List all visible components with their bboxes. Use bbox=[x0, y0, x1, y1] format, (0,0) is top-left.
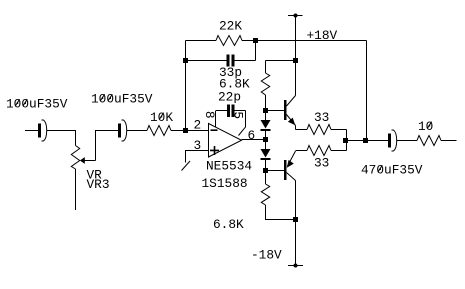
svg-text:22p: 22p bbox=[218, 90, 241, 105]
svg-text:-18V: -18V bbox=[251, 248, 282, 263]
wire 22K to +18V corner bbox=[242, 40, 367, 42]
label NE5534 bbox=[206, 159, 252, 174]
node bootstrap junction bbox=[363, 138, 368, 143]
terminal +18V tick bbox=[288, 14, 303, 18]
svg-text:10: 10 bbox=[418, 119, 433, 134]
label VR3 bbox=[87, 177, 110, 192]
wire wiper up to C2 bbox=[96, 131, 119, 161]
transistor Q2 PNP lower bbox=[284, 151, 307, 181]
pin 6 label bbox=[248, 128, 256, 143]
pin 2 label bbox=[194, 118, 202, 133]
label 10 bbox=[418, 119, 433, 134]
label 1S1588 bbox=[202, 176, 248, 191]
wire 33p left bbox=[186, 60, 227, 62]
diode D1 1S1588 bbox=[261, 120, 271, 131]
svg-text:33: 33 bbox=[314, 110, 329, 125]
wire Q1 emitter to 33 bbox=[296, 129, 308, 131]
label 22p bbox=[218, 90, 241, 105]
label 33 lower bbox=[314, 156, 329, 171]
wire output end bbox=[441, 140, 457, 142]
wire Q1 base bbox=[266, 110, 285, 112]
node inverting input junction bbox=[183, 128, 188, 133]
svg-text:100uF35V: 100uF35V bbox=[6, 97, 68, 112]
label 33 upper bbox=[314, 110, 329, 125]
potentiometer VR3 body bbox=[71, 146, 79, 170]
ground tick pin 3 bbox=[182, 161, 191, 171]
svg-text:1S1588: 1S1588 bbox=[202, 176, 248, 191]
svg-text:33: 33 bbox=[314, 156, 329, 171]
label 33p bbox=[219, 65, 242, 80]
svg-text:8: 8 bbox=[202, 111, 217, 119]
wire 6.8K to diode D1 bbox=[265, 95, 267, 120]
svg-text:100uF35V: 100uF35V bbox=[91, 92, 153, 107]
terminal -18V tick bbox=[288, 264, 303, 268]
wire top to 22K bbox=[186, 40, 217, 42]
node op-amp output junction bbox=[263, 137, 268, 142]
pin 8 label rotated bbox=[202, 111, 217, 119]
svg-text:10K: 10K bbox=[150, 110, 173, 125]
svg-text:6: 6 bbox=[248, 128, 256, 143]
svg-text:2: 2 bbox=[194, 118, 202, 133]
wire 10K to op-amp pin 2 bbox=[171, 130, 209, 132]
label +18V bbox=[307, 28, 338, 43]
label 6.8K lower bbox=[213, 217, 244, 232]
wire 6.8K top feed from +18V bbox=[266, 61, 296, 74]
wire pin 3 to ground tick bbox=[186, 151, 209, 163]
resistor 33 lower emitter bbox=[307, 146, 331, 156]
label 6.8K upper bbox=[219, 77, 250, 92]
wire Q2 collector to -18V bbox=[295, 181, 297, 266]
node feedback top junction bbox=[253, 38, 258, 43]
node Q2 base junction bbox=[263, 168, 268, 173]
resistor 33 upper emitter bbox=[307, 125, 331, 135]
wire feedback left vertical bbox=[185, 41, 187, 131]
svg-text:470uF35V: 470uF35V bbox=[361, 163, 423, 178]
label -18V bbox=[251, 248, 282, 263]
wire D2 to Q2 base node bbox=[265, 160, 267, 184]
potentiometer VR3 bottom lead bbox=[75, 169, 77, 210]
wire D1 to node bbox=[265, 131, 267, 149]
wire +18V rail vertical bbox=[295, 16, 297, 96]
node output junction bbox=[343, 138, 348, 143]
svg-text:6.8K: 6.8K bbox=[219, 77, 250, 92]
wire 33 upper to output node bbox=[331, 130, 347, 151]
wire C1 to VR3 top bbox=[47, 131, 76, 146]
svg-text:VR3: VR3 bbox=[87, 177, 110, 192]
diode D2 1S1588 bbox=[261, 149, 271, 160]
label 470uF35V bbox=[361, 163, 423, 178]
svg-text:5: 5 bbox=[231, 111, 246, 119]
resistor 10K bbox=[147, 126, 171, 136]
wire 6.8K lower to -18V rail bbox=[266, 205, 296, 220]
potentiometer VR3 wiper arrow bbox=[80, 157, 96, 164]
label 10K bbox=[150, 110, 173, 125]
label C1 100uF35V bbox=[6, 97, 68, 112]
resistor 6.8K lower bias bbox=[261, 184, 269, 205]
wire pin 6 output bbox=[242, 139, 266, 141]
label 22K bbox=[219, 19, 242, 34]
op-amp U1 NE5534 bbox=[209, 124, 242, 158]
transistor Q1 NPN upper bbox=[284, 96, 296, 130]
pin 3 label bbox=[194, 138, 202, 153]
svg-text:22K: 22K bbox=[219, 19, 242, 34]
node Q1 base junction bbox=[263, 108, 268, 113]
resistor 6.8K upper bias bbox=[261, 73, 269, 95]
wire Q2 base bbox=[266, 170, 285, 172]
capacitor 33p feedback bbox=[227, 55, 235, 67]
node -18V rail junction bbox=[293, 217, 298, 222]
wire input bbox=[25, 130, 38, 132]
wire 33 lower to output node bbox=[331, 150, 347, 152]
label C2 100uF35V bbox=[91, 92, 153, 107]
capacitor C2 100uF35V second coupling bbox=[118, 120, 127, 141]
wire output node to C3 bbox=[347, 140, 389, 142]
node +18V bias junction bbox=[293, 58, 298, 63]
label VR bbox=[87, 168, 103, 183]
wire pin 5 lead bbox=[239, 111, 246, 136]
wire junction down to 33p bbox=[255, 41, 257, 61]
node 33p left junction bbox=[183, 58, 188, 63]
pin 5 label rotated bbox=[231, 111, 246, 119]
capacitor C1 100uF35V input coupling bbox=[38, 120, 47, 141]
wire pin 8 lead bbox=[215, 111, 217, 127]
svg-text:+18V: +18V bbox=[307, 28, 338, 43]
wire +18V corner down bbox=[366, 41, 368, 141]
capacitor 22p compensation bbox=[216, 105, 246, 118]
wire C2 to R 10K bbox=[127, 130, 147, 132]
svg-text:6.8K: 6.8K bbox=[213, 217, 244, 232]
resistor 10 output bbox=[417, 136, 441, 146]
svg-text:NE5534: NE5534 bbox=[206, 159, 252, 174]
capacitor C3 470uF35V output bbox=[388, 130, 397, 151]
wire C3 to 10 bbox=[397, 140, 417, 142]
resistor 22K feedback bbox=[216, 36, 242, 46]
wire 33p right bbox=[235, 60, 256, 62]
